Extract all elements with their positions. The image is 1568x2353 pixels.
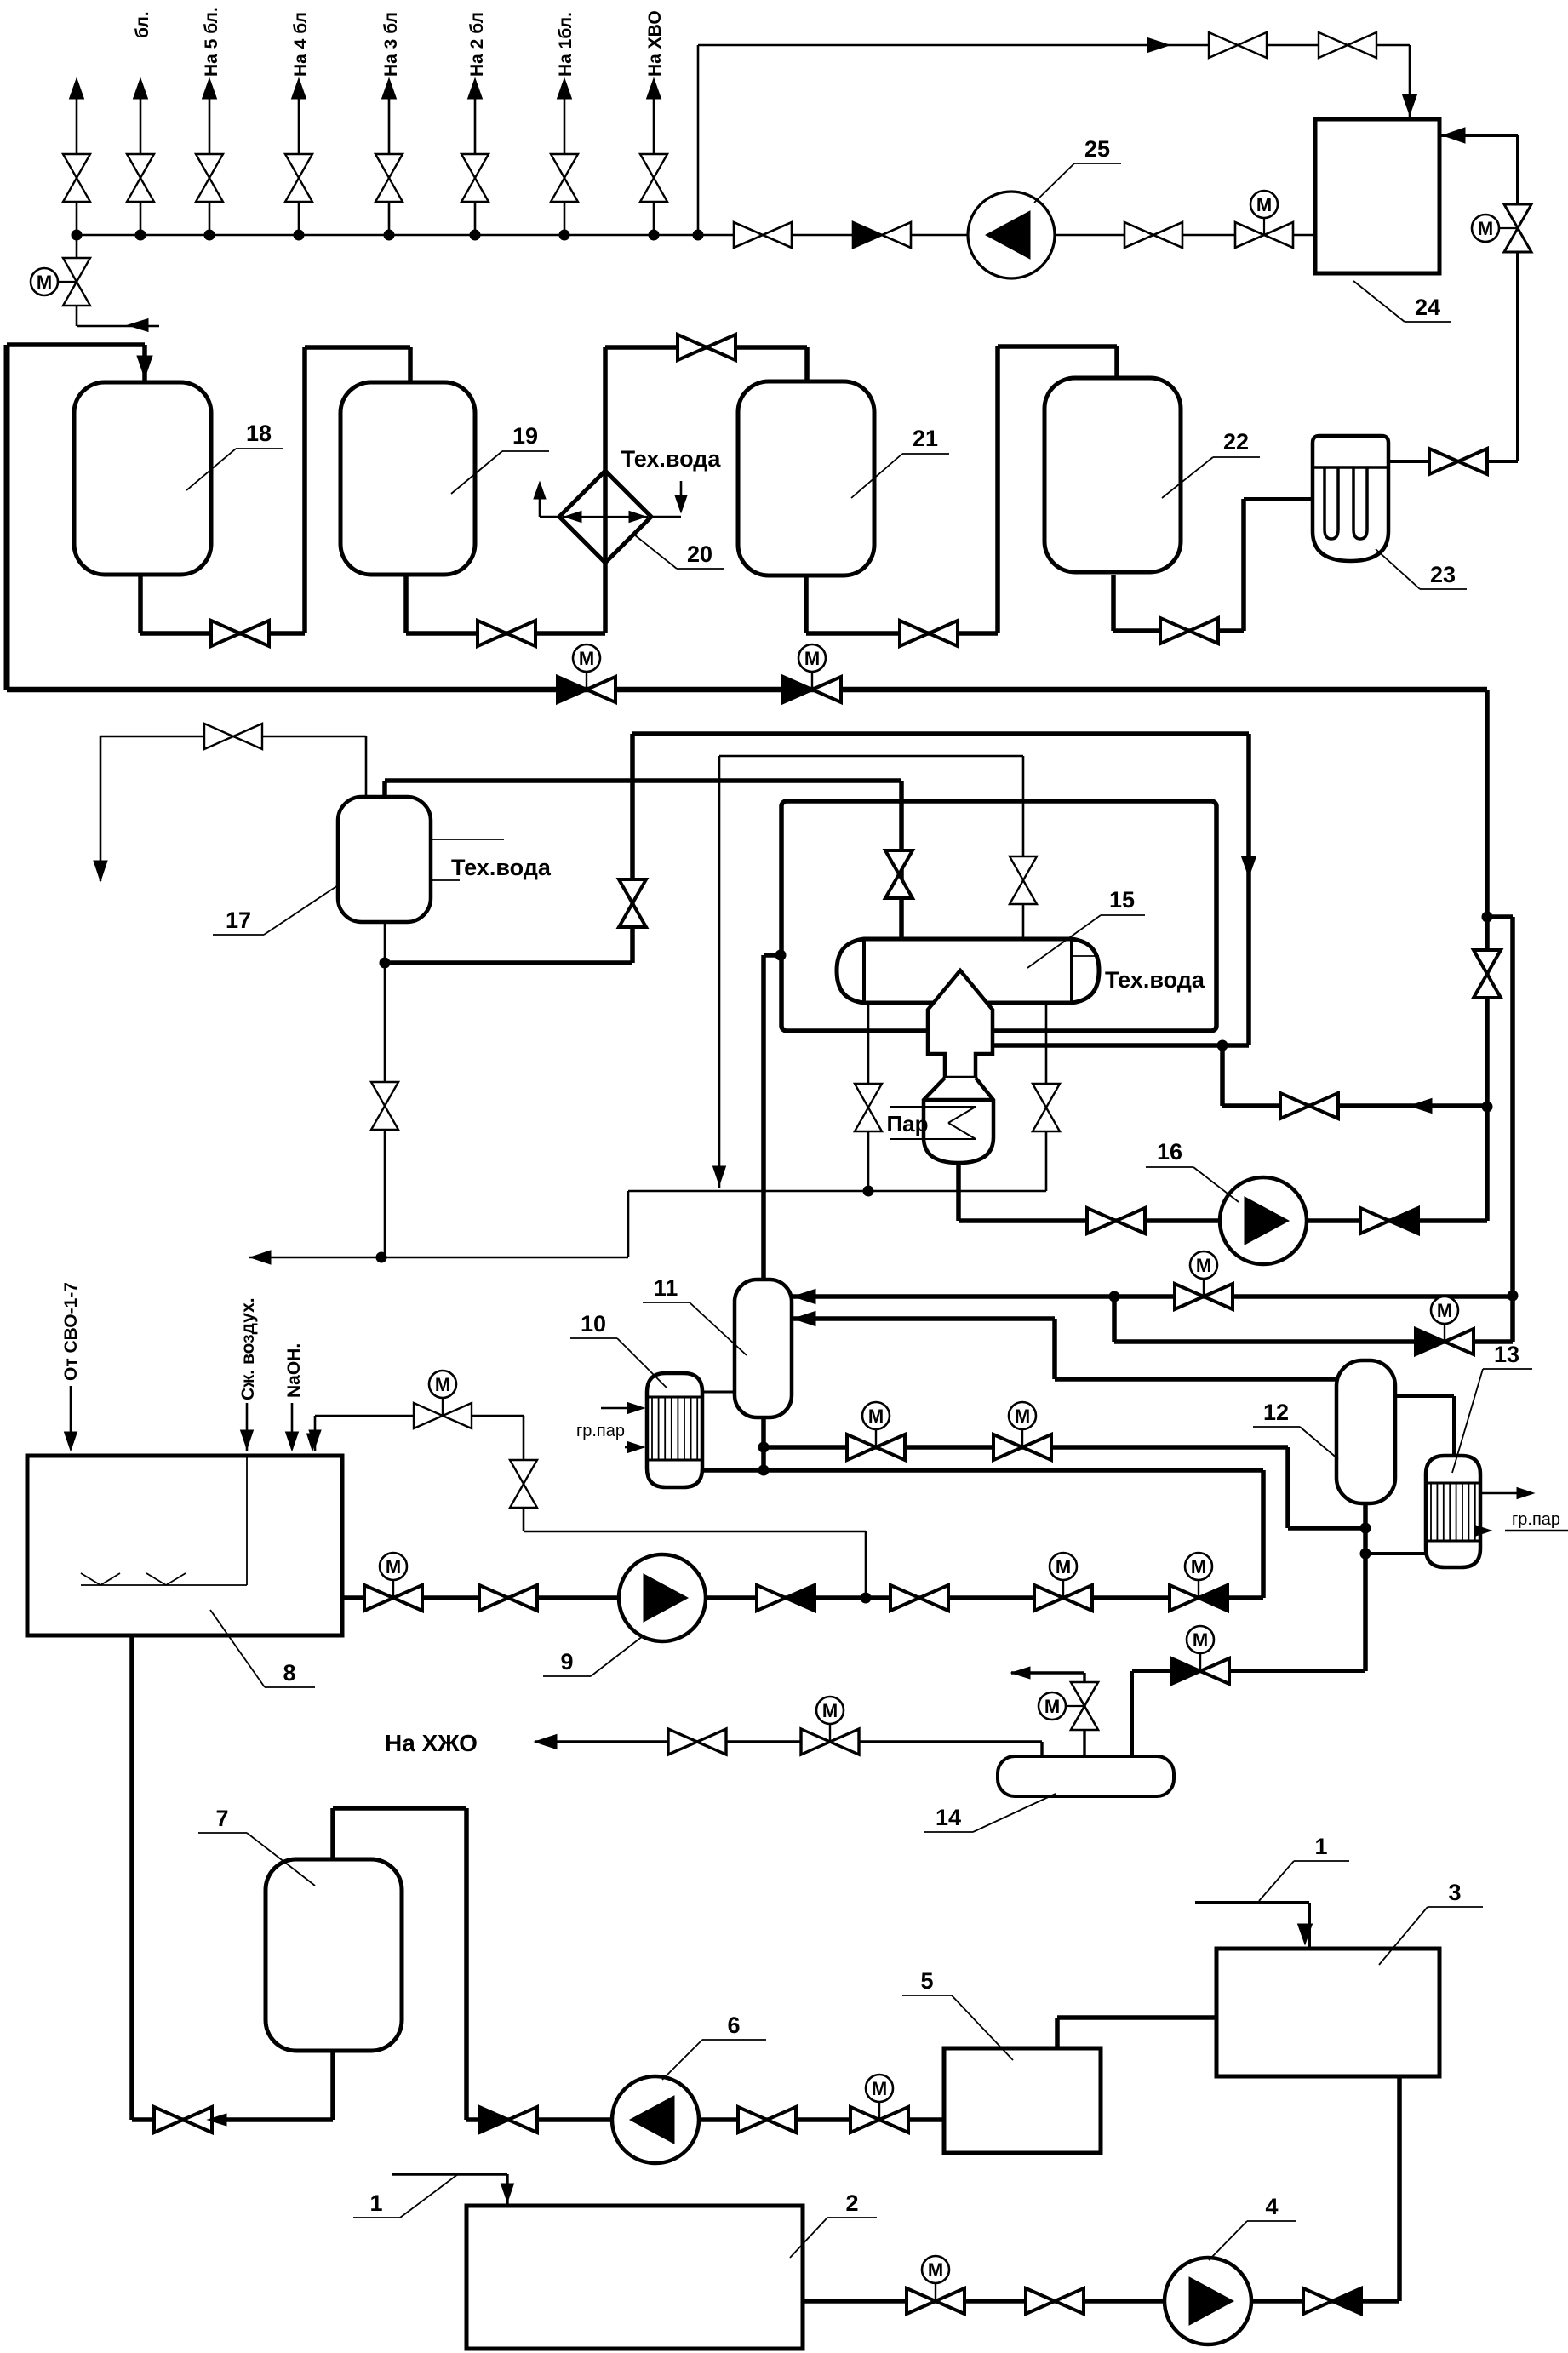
svg-text:M: M xyxy=(1196,1255,1211,1276)
svg-text:M: M xyxy=(868,1406,884,1427)
svg-text:На 1бл.: На 1бл. xyxy=(556,12,575,77)
svg-text:1: 1 xyxy=(1314,1834,1327,1859)
svg-text:20: 20 xyxy=(687,541,712,567)
svg-text:5: 5 xyxy=(920,1968,933,1994)
svg-text:25: 25 xyxy=(1084,136,1110,162)
svg-text:M: M xyxy=(386,1556,401,1577)
svg-text:Тех.вода: Тех.вода xyxy=(1105,967,1205,993)
svg-text:15: 15 xyxy=(1109,887,1135,913)
svg-text:бл.: бл. xyxy=(133,11,152,38)
svg-text:17: 17 xyxy=(226,907,251,933)
svg-text:На ХЖО: На ХЖО xyxy=(385,1730,478,1756)
svg-text:M: M xyxy=(37,272,52,293)
svg-text:10: 10 xyxy=(581,1311,606,1337)
svg-text:12: 12 xyxy=(1263,1400,1289,1425)
svg-text:9: 9 xyxy=(560,1649,573,1675)
svg-text:M: M xyxy=(1193,1629,1208,1651)
svg-text:M: M xyxy=(872,2078,887,2099)
svg-text:На 5 бл.: На 5 бл. xyxy=(202,7,221,77)
svg-text:2: 2 xyxy=(845,2190,858,2216)
svg-text:Тех.вода: Тех.вода xyxy=(451,855,552,880)
svg-text:8: 8 xyxy=(283,1660,295,1686)
svg-text:11: 11 xyxy=(654,1275,678,1301)
svg-text:M: M xyxy=(822,1700,838,1721)
svg-text:На 4 бл: На 4 бл xyxy=(291,12,311,77)
svg-text:16: 16 xyxy=(1157,1139,1182,1165)
svg-text:На 2 бл: На 2 бл xyxy=(467,12,487,77)
svg-text:21: 21 xyxy=(913,426,938,451)
svg-text:Сж. воздух.: Сж. воздух. xyxy=(238,1297,258,1400)
svg-text:23: 23 xyxy=(1430,562,1456,587)
svg-text:Тех.вода: Тех.вода xyxy=(621,446,722,472)
svg-text:1: 1 xyxy=(369,2190,382,2216)
svg-text:гр.пар: гр.пар xyxy=(1512,1510,1560,1529)
svg-text:гр.пар: гр.пар xyxy=(576,1422,625,1440)
svg-text:3: 3 xyxy=(1448,1880,1461,1905)
svg-text:M: M xyxy=(1056,1556,1071,1577)
svg-text:На 3 бл: На 3 бл xyxy=(381,12,401,77)
svg-text:M: M xyxy=(435,1374,450,1395)
svg-text:M: M xyxy=(1191,1556,1206,1577)
svg-text:M: M xyxy=(928,2259,943,2281)
svg-text:M: M xyxy=(579,648,594,669)
svg-text:M: M xyxy=(1478,218,1493,239)
svg-text:NaOH.: NaOH. xyxy=(284,1343,304,1398)
svg-text:7: 7 xyxy=(215,1806,228,1831)
svg-text:6: 6 xyxy=(727,2012,740,2038)
svg-text:M: M xyxy=(804,648,820,669)
svg-text:4: 4 xyxy=(1265,2194,1278,2219)
svg-text:13: 13 xyxy=(1494,1342,1519,1367)
svg-text:18: 18 xyxy=(246,421,272,446)
svg-text:22: 22 xyxy=(1223,429,1249,455)
svg-text:M: M xyxy=(1044,1696,1060,1717)
svg-text:От СВО-1-7: От СВО-1-7 xyxy=(61,1282,81,1381)
svg-text:M: M xyxy=(1256,194,1272,215)
svg-text:14: 14 xyxy=(936,1805,961,1830)
svg-text:M: M xyxy=(1437,1300,1452,1321)
svg-text:M: M xyxy=(1015,1406,1030,1427)
svg-text:На ХВО: На ХВО xyxy=(645,10,665,77)
svg-text:19: 19 xyxy=(512,423,538,449)
svg-text:Пар: Пар xyxy=(886,1111,928,1136)
svg-text:24: 24 xyxy=(1415,295,1440,320)
